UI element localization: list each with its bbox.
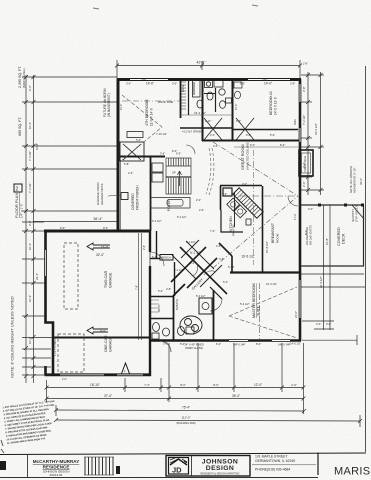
bench bbox=[127, 132, 143, 138]
svg-text:GARAGE: GARAGE bbox=[109, 336, 113, 352]
svg-text:6'-4": 6'-4" bbox=[152, 255, 157, 259]
svg-text:4'-0": 4'-0" bbox=[213, 144, 218, 148]
svg-text:2'-8": 2'-8" bbox=[303, 63, 308, 66]
svg-text:8'-0": 8'-0" bbox=[256, 342, 261, 346]
svg-text:689 SQ. FT.: 689 SQ. FT. bbox=[18, 117, 22, 136]
svg-text:SUITE: SUITE bbox=[257, 305, 261, 316]
title block top rule bbox=[0, 453, 366, 455]
powder fixtures bbox=[152, 323, 170, 340]
svg-text:8'-0": 8'-0" bbox=[304, 230, 308, 235]
svg-text:5040: 5040 bbox=[293, 119, 297, 125]
svg-text:KITCHEN: KITCHEN bbox=[229, 216, 233, 232]
svg-text:FLOOR PLAN: FLOOR PLAN bbox=[14, 193, 19, 218]
svg-text:6'-1 1/2": 6'-1 1/2" bbox=[152, 219, 162, 223]
svg-text:2'-6": 2'-6" bbox=[302, 181, 306, 187]
wall bath left bbox=[180, 79, 182, 118]
svg-text:6'-0": 6'-0" bbox=[236, 119, 241, 123]
svg-text:BENCH: BENCH bbox=[162, 256, 171, 260]
dim left col line1 bbox=[25, 75, 27, 383]
title divider vertical bbox=[317, 453, 319, 476]
great room dashed ceiling lines bbox=[122, 95, 298, 268]
svg-text:7'-4": 7'-4" bbox=[144, 383, 150, 387]
svg-text:(MAIN LEVEL): (MAIN LEVEL) bbox=[22, 68, 26, 88]
svg-text:21'-0": 21'-0" bbox=[294, 311, 298, 318]
shear wall note box bbox=[299, 150, 313, 176]
dim bottom row1 ticks bbox=[46, 380, 48, 402]
master bath tub bbox=[180, 316, 202, 334]
svg-text:16'-8": 16'-8" bbox=[35, 143, 39, 150]
title owner text bbox=[33, 459, 80, 477]
svg-text:8'-4": 8'-4" bbox=[280, 143, 285, 147]
garage keynote square bbox=[121, 193, 128, 200]
svg-text:GARAGE: GARAGE bbox=[109, 272, 113, 288]
svg-text:35'-4": 35'-4" bbox=[232, 394, 240, 398]
garage attic dashed rect two-car bbox=[64, 243, 78, 309]
deck door arc bbox=[288, 196, 298, 206]
title hatch ruler bbox=[84, 457, 114, 475]
wall garage bottom bbox=[45, 373, 152, 376]
svg-text:5'-10": 5'-10" bbox=[228, 265, 235, 269]
deck top bbox=[301, 204, 364, 206]
svg-text:10'-0": 10'-0" bbox=[28, 337, 32, 344]
svg-text:5'-0 1/2": 5'-0 1/2" bbox=[196, 294, 206, 298]
svg-text:3'-0": 3'-0" bbox=[172, 82, 177, 86]
svg-text:4'-1 1/2": 4'-1 1/2" bbox=[186, 240, 196, 244]
svg-text:5'-0": 5'-0" bbox=[270, 133, 275, 137]
wall bedroom2 left bbox=[232, 79, 234, 141]
deck right bbox=[363, 205, 365, 266]
svg-text:8'-0": 8'-0" bbox=[180, 383, 186, 387]
svg-text:(TEMP GLASS): (TEMP GLASS) bbox=[185, 346, 203, 350]
windows overlays bbox=[46, 80, 301, 375]
wall wic left bbox=[150, 296, 174, 298]
left edge mark bbox=[0, 461, 6, 470]
wall foyer left bbox=[150, 157, 152, 231]
svg-text:12'-0": 12'-0" bbox=[254, 383, 262, 387]
svg-text:MARIS: MARIS bbox=[334, 466, 370, 478]
wall top bbox=[117, 78, 301, 81]
svg-text:3'-2": 3'-2" bbox=[302, 162, 306, 168]
svg-text:14'-0 1/2": 14'-0 1/2" bbox=[290, 342, 301, 346]
svg-text:3040: 3040 bbox=[141, 80, 147, 82]
wall hall horizontal bbox=[117, 156, 165, 158]
svg-text:7'-0": 7'-0" bbox=[210, 229, 215, 233]
bath fixtures upper middle bbox=[181, 79, 232, 115]
svg-text:3'-6": 3'-6" bbox=[219, 257, 224, 261]
laundry appliances bbox=[152, 163, 163, 172]
stair curved dashed arch bbox=[206, 148, 211, 194]
svg-text:16'-4 1/2": 16'-4 1/2" bbox=[266, 282, 277, 286]
wall pantry bbox=[150, 258, 160, 260]
svg-text:2'-0": 2'-0" bbox=[308, 207, 313, 211]
svg-text:18'-10": 18'-10" bbox=[90, 383, 100, 387]
svg-text:11'-0": 11'-0" bbox=[234, 104, 238, 110]
wall master bedroom top bbox=[230, 271, 300, 273]
garage dashed rect one-car bbox=[58, 334, 84, 372]
dim right col1 bbox=[307, 72, 309, 195]
svg-text:2'-0": 2'-0" bbox=[291, 383, 297, 387]
svg-text:2'-8": 2'-8" bbox=[302, 86, 306, 92]
JD logo square bbox=[169, 458, 189, 475]
svg-text:COVERED: COVERED bbox=[337, 227, 341, 246]
svg-text:2'-8": 2'-8" bbox=[290, 82, 295, 86]
wall kitchen left vertical bbox=[220, 186, 222, 210]
svg-text:4'-6": 4'-6" bbox=[216, 244, 221, 248]
bench hall bbox=[160, 255, 173, 261]
JOHNSON DESIGN text bbox=[191, 456, 193, 477]
svg-text:16'-4 1/2": 16'-4 1/2" bbox=[194, 111, 206, 115]
svg-text:7'-4 1/2": 7'-4 1/2" bbox=[28, 183, 32, 193]
dim left extension lines bbox=[22, 76, 117, 78]
svg-text:FRONT PORCH: FRONT PORCH bbox=[136, 185, 140, 210]
kitchen counter edge bbox=[234, 192, 236, 227]
svg-text:6'-0": 6'-0" bbox=[250, 143, 255, 147]
title small mark bbox=[116, 466, 120, 474]
svg-text:32'-4": 32'-4" bbox=[96, 253, 104, 257]
svg-text:(VAULTED CEILING): (VAULTED CEILING) bbox=[246, 142, 250, 170]
dim bottom row3 bbox=[56, 410, 304, 411]
master bedroom dashed ceiling bbox=[229, 283, 297, 339]
svg-text:14P X 14P: 14P X 14P bbox=[278, 343, 291, 347]
svg-text:2'-4": 2'-4" bbox=[210, 133, 215, 137]
svg-text:16'-0": 16'-0" bbox=[101, 245, 109, 249]
svg-text:11'-0 X 14'-0: 11'-0 X 14'-0 bbox=[150, 108, 154, 126]
keynote box bbox=[14, 184, 22, 192]
svg-text:McCARTHY-MURRAY: McCARTHY-MURRAY bbox=[33, 459, 80, 464]
svg-text:8'-0": 8'-0" bbox=[213, 383, 219, 387]
svg-text:5'-0": 5'-0" bbox=[180, 342, 185, 346]
svg-text:8'-0": 8'-0" bbox=[60, 226, 65, 230]
svg-text:3'-0": 3'-0" bbox=[126, 82, 131, 86]
master shower bbox=[199, 298, 212, 314]
svg-text:2'-8": 2'-8" bbox=[142, 245, 146, 250]
svg-text:BREAKFAST: BREAKFAST bbox=[271, 223, 275, 243]
svg-text:36'-4": 36'-4" bbox=[93, 217, 103, 221]
svg-text:5'-4 1/2": 5'-4 1/2" bbox=[240, 302, 250, 306]
interior dim lines garage right bbox=[138, 233, 140, 340]
svg-text:34'-0": 34'-0" bbox=[359, 178, 363, 185]
svg-text:5'-0": 5'-0" bbox=[240, 82, 245, 86]
svg-text:3'-0": 3'-0" bbox=[326, 322, 331, 326]
dim deck col bbox=[323, 205, 325, 330]
svg-text:HEADERS AT 6'-10": HEADERS AT 6'-10" bbox=[353, 168, 357, 193]
wall house front bottom bbox=[149, 339, 301, 342]
diag hall to master bbox=[231, 256, 233, 272]
title divider small bbox=[27, 455, 29, 477]
svg-text:5'-4": 5'-4" bbox=[223, 280, 228, 284]
svg-text:5'-8": 5'-8" bbox=[124, 162, 129, 166]
svg-text:2'-0": 2'-0" bbox=[62, 378, 67, 381]
wall master bath top diag bbox=[173, 284, 185, 296]
sheet right edge line bbox=[365, 66, 367, 452]
door swing hall bedroom bbox=[186, 145, 195, 154]
deck lower line bbox=[300, 273, 364, 275]
svg-text:BEDROOM #2: BEDROOM #2 bbox=[269, 91, 273, 115]
title bottom rule bbox=[0, 477, 318, 479]
svg-text:6'-0": 6'-0" bbox=[216, 342, 221, 346]
svg-text:17'-2": 17'-2" bbox=[293, 213, 297, 220]
svg-text:NOTE: 8' CEILING HEIGHT UNLESS: NOTE: 8' CEILING HEIGHT UNLESS NOTED bbox=[10, 296, 15, 378]
svg-text:#2013-04: #2013-04 bbox=[50, 473, 63, 477]
svg-text:16'-6 1/2": 16'-6 1/2" bbox=[241, 255, 254, 259]
svg-text:GREAT ROOM: GREAT ROOM bbox=[241, 144, 245, 170]
svg-text:2'-8": 2'-8" bbox=[166, 287, 171, 291]
svg-text:14'-6": 14'-6" bbox=[146, 82, 154, 86]
top page specks bbox=[93, 5, 258, 9]
svg-text:ROOM: ROOM bbox=[276, 233, 280, 243]
svg-text:42'-8": 42'-8" bbox=[196, 61, 206, 65]
svg-text:M.BATH: M.BATH bbox=[175, 299, 179, 310]
garage furnace triangle bbox=[121, 363, 130, 375]
svg-text:14'-0": 14'-0" bbox=[264, 82, 272, 86]
svg-text:HEADER NOTE: HEADER NOTE bbox=[100, 183, 104, 205]
wall kitchen top bbox=[220, 185, 262, 187]
svg-text:9'-1 1/2": 9'-1 1/2" bbox=[190, 251, 202, 255]
svg-text:101 MAPLE STREET: 101 MAPLE STREET bbox=[255, 455, 287, 459]
wall master bath left bbox=[173, 296, 175, 340]
svg-text:16'-4": 16'-4" bbox=[28, 295, 32, 302]
svg-text:BATH: BATH bbox=[181, 85, 185, 92]
JD logo outer box bbox=[166, 456, 250, 477]
svg-text:10'-4": 10'-4" bbox=[28, 243, 32, 250]
svg-text:1/4" = 1'-0": 1/4" = 1'-0" bbox=[20, 203, 24, 218]
wall under stairs shelf bbox=[151, 198, 190, 209]
svg-text:15'-8 1/2": 15'-8 1/2" bbox=[265, 241, 269, 253]
svg-text:11'-0": 11'-0" bbox=[119, 104, 123, 110]
svg-text:GERMANTOWN, IL 62249: GERMANTOWN, IL 62249 bbox=[255, 459, 295, 463]
svg-text:FOYER: FOYER bbox=[167, 199, 171, 211]
dim line under closets bbox=[234, 146, 300, 148]
svg-text:4'-11": 4'-11" bbox=[205, 119, 211, 123]
svg-text:W.I.C.: W.I.C. bbox=[157, 304, 161, 312]
svg-text:3'-0": 3'-0" bbox=[190, 261, 195, 265]
svg-text:6'-8": 6'-8" bbox=[246, 133, 251, 137]
dim bottom row1 bbox=[47, 387, 304, 389]
deck corner brace bbox=[352, 205, 364, 219]
dim right ticks bbox=[301, 74, 324, 76]
note leader line bbox=[108, 195, 121, 196]
svg-text:DESIGN: DESIGN bbox=[206, 465, 234, 472]
gallery diagonal wall 3 bbox=[219, 243, 232, 256]
lower bath fixtures bbox=[178, 327, 195, 336]
svg-text:2'-3": 2'-3" bbox=[28, 85, 32, 91]
door swing foyer closet bbox=[123, 144, 141, 160]
closet shelf line bbox=[120, 142, 144, 161]
svg-text:4TH BEDROOM: 4TH BEDROOM bbox=[145, 100, 149, 126]
svg-text:JD: JD bbox=[172, 466, 182, 475]
dim top line bbox=[117, 65, 300, 67]
svg-text:36'-4 1/2": 36'-4 1/2" bbox=[319, 276, 323, 288]
svg-text:2'-0": 2'-0" bbox=[196, 198, 201, 202]
svg-text:9'-4": 9'-4" bbox=[103, 226, 108, 230]
svg-text:5'-0": 5'-0" bbox=[158, 289, 163, 293]
dim left col line2 bbox=[33, 75, 35, 383]
dim deck bottom ticks bbox=[302, 320, 334, 322]
svg-text:TWO-CAR: TWO-CAR bbox=[104, 270, 108, 288]
dim right col2 bbox=[320, 72, 322, 195]
svg-text:RESIDENTIAL DESIGN+DRAFTING: RESIDENTIAL DESIGN+DRAFTING bbox=[200, 473, 239, 476]
wall bedroom2 bottom bbox=[233, 129, 298, 131]
svg-text:(TYP 4 PLCS): (TYP 4 PLCS) bbox=[355, 204, 359, 222]
wall bath middle horizontal bbox=[180, 127, 232, 129]
svg-text:5'-1 1/2": 5'-1 1/2" bbox=[177, 215, 187, 219]
svg-text:24'-4": 24'-4" bbox=[35, 273, 39, 280]
svg-text:37'-4": 37'-4" bbox=[104, 394, 112, 398]
arrow one-car bbox=[87, 327, 108, 334]
kitchen counters bbox=[221, 188, 243, 232]
svg-text:ROOF LINE: ROOF LINE bbox=[158, 100, 173, 104]
dim bottom row2 bbox=[47, 398, 304, 400]
svg-text:75'-4": 75'-4" bbox=[182, 406, 190, 410]
wall left upper bbox=[117, 79, 120, 231]
bath2 vanity bbox=[234, 82, 242, 88]
wall closet front bbox=[202, 140, 299, 142]
svg-text:MASTER BEDROOM: MASTER BEDROOM bbox=[252, 283, 256, 318]
stairs treads bbox=[166, 158, 191, 194]
svg-text:ONE-CAR: ONE-CAR bbox=[104, 335, 108, 352]
svg-text:7'-8": 7'-8" bbox=[135, 285, 139, 290]
svg-text:3'-0": 3'-0" bbox=[28, 220, 32, 226]
svg-text:PHONE(618) 939-4684: PHONE(618) 939-4684 bbox=[255, 468, 290, 472]
svg-text:7'-3 1/4": 7'-3 1/4" bbox=[302, 115, 306, 125]
svg-text:DECK: DECK bbox=[342, 233, 346, 244]
wall master bath right bbox=[213, 290, 215, 340]
svg-text:7'-10 1/2": 7'-10 1/2" bbox=[156, 132, 167, 136]
svg-text:4 1/2 ALT OPENING: 4 1/2 ALT OPENING bbox=[182, 131, 204, 134]
wall garage left with jog bbox=[46, 230, 54, 375]
svg-text:3'-6": 3'-6" bbox=[160, 152, 165, 156]
svg-text:8'-4": 8'-4" bbox=[172, 149, 177, 153]
svg-text:3'-0": 3'-0" bbox=[242, 182, 247, 186]
address underline bbox=[252, 464, 316, 466]
svg-text:2: 2 bbox=[16, 187, 19, 193]
kitchen island diagonal hatched bbox=[225, 188, 264, 227]
wall bath mid vertical bbox=[202, 79, 204, 141]
deck bottom bbox=[301, 265, 364, 267]
svg-text:ON 2x8 JOISTS: ON 2x8 JOISTS bbox=[309, 225, 313, 245]
wic shelves bbox=[151, 300, 159, 312]
svg-text:5040: 5040 bbox=[262, 80, 268, 82]
wall garage divider bbox=[53, 337, 150, 339]
svg-text:2'-0": 2'-0" bbox=[316, 322, 321, 326]
svg-text:6'-1 1/2": 6'-1 1/2" bbox=[174, 268, 184, 272]
svg-text:24'-0 1/2": 24'-0 1/2" bbox=[314, 123, 318, 135]
front door arc bbox=[160, 341, 171, 352]
svg-text:14P X 14P: 14P X 14P bbox=[233, 343, 246, 347]
svg-text:UP: UP bbox=[172, 171, 176, 175]
svg-text:16'-8": 16'-8" bbox=[325, 238, 329, 245]
svg-text:4 1/2 TYP WALL: 4 1/2 TYP WALL bbox=[54, 338, 57, 356]
dim bottom row4 building pad bbox=[56, 420, 360, 421]
svg-text:(BUILDING PAD): (BUILDING PAD) bbox=[176, 422, 195, 425]
svg-text:5'-0": 5'-0" bbox=[163, 342, 168, 346]
hall door arcs bbox=[193, 262, 198, 276]
svg-text:COVERED: COVERED bbox=[131, 193, 135, 210]
svg-text:112'-0": 112'-0" bbox=[181, 416, 190, 420]
arrow two-car bbox=[87, 243, 110, 250]
svg-text:2'-6": 2'-6" bbox=[128, 171, 133, 175]
svg-text:7'-4 1/2": 7'-4 1/2" bbox=[28, 151, 32, 161]
svg-text:9'-0": 9'-0" bbox=[100, 329, 106, 333]
wall powder bbox=[150, 318, 174, 320]
dim right low extensions bbox=[301, 286, 365, 288]
wall garage top bbox=[44, 230, 150, 233]
porch inner dim line bbox=[120, 160, 122, 230]
svg-text:(IN BASEMENT): (IN BASEMENT) bbox=[107, 93, 111, 117]
address text bbox=[255, 455, 295, 472]
svg-text:14'-0 X 11'-0: 14'-0 X 11'-0 bbox=[274, 97, 278, 115]
gallery diagonal X walls bbox=[171, 240, 227, 299]
svg-text:16'-4": 16'-4" bbox=[28, 122, 32, 129]
svg-text:2'-9": 2'-9" bbox=[222, 192, 227, 196]
wall breakfast divider bbox=[262, 186, 264, 272]
wall garage right bbox=[149, 231, 151, 252]
deck posts bbox=[318, 204, 321, 207]
wall right main bbox=[299, 79, 302, 341]
svg-text:5'-0": 5'-0" bbox=[136, 138, 141, 142]
closet bifold X doors top bbox=[204, 118, 254, 140]
svg-text:2'-0": 2'-0" bbox=[199, 208, 204, 212]
